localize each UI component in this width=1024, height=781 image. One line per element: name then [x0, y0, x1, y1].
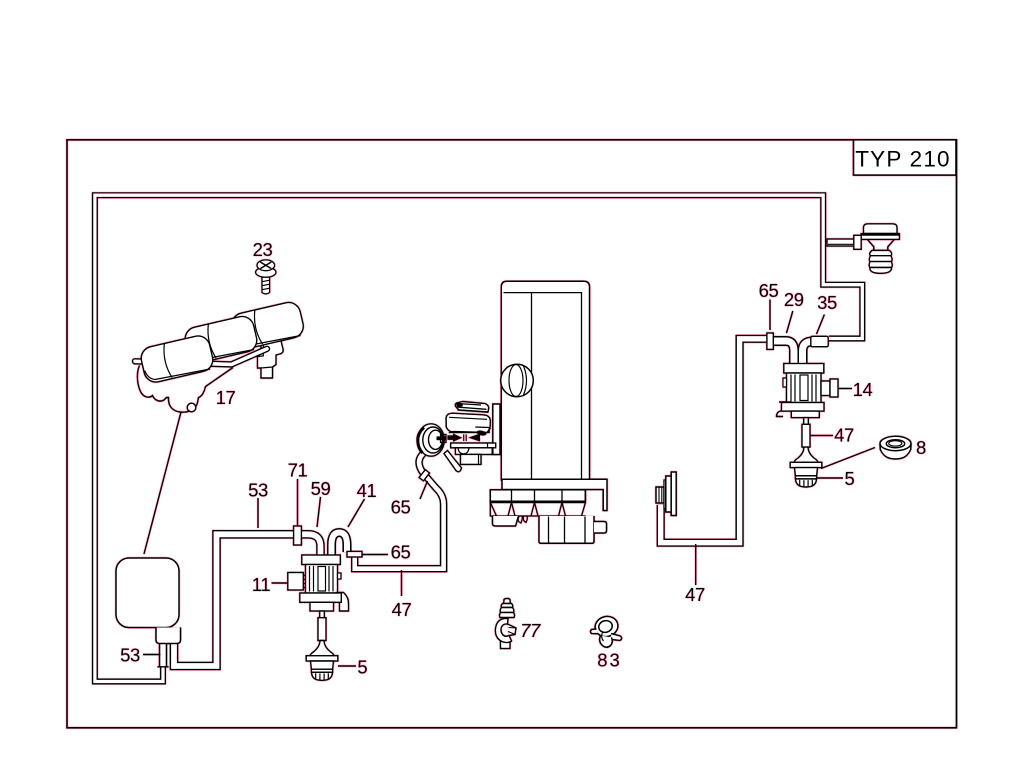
svg-text:47: 47	[834, 425, 854, 446]
svg-text:17: 17	[216, 387, 236, 408]
svg-text:83: 83	[597, 650, 622, 671]
svg-text:65: 65	[391, 497, 411, 518]
svg-text:29: 29	[784, 289, 804, 310]
svg-text:71: 71	[288, 460, 308, 481]
svg-text:23: 23	[253, 239, 273, 260]
svg-text:8: 8	[916, 437, 926, 458]
svg-text:TYP 210: TYP 210	[855, 147, 951, 172]
svg-text:47: 47	[392, 599, 412, 620]
svg-text:5: 5	[845, 468, 855, 489]
svg-text:11: 11	[252, 574, 271, 595]
svg-text:59: 59	[311, 478, 331, 499]
svg-text:65: 65	[759, 280, 779, 301]
svg-text:65: 65	[391, 542, 411, 563]
svg-text:77: 77	[520, 620, 541, 641]
svg-text:5: 5	[357, 657, 367, 678]
svg-text:53: 53	[120, 645, 140, 666]
svg-text:41: 41	[357, 480, 377, 501]
svg-text:47: 47	[685, 584, 705, 605]
svg-text:53: 53	[248, 480, 268, 501]
svg-text:35: 35	[817, 292, 837, 313]
svg-text:14: 14	[853, 379, 873, 400]
